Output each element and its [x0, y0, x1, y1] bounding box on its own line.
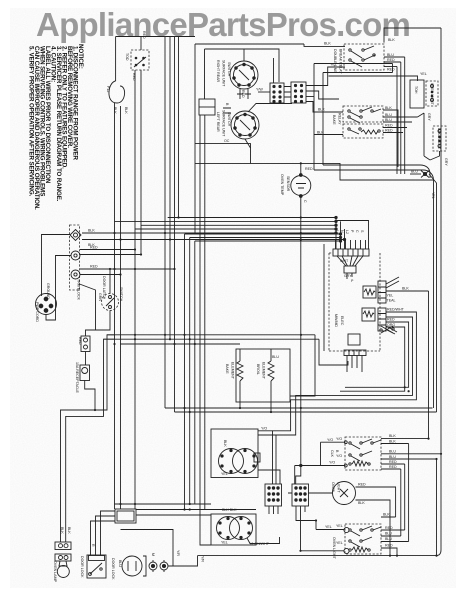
wire plug to L1	[42, 235, 71, 297]
wire CN8 to oven light top	[288, 492, 333, 494]
svg-text:TEAL: TEAL	[387, 299, 396, 303]
svg-text:TRM BLOCK: TRM BLOCK	[77, 279, 81, 301]
svg-text:M: M	[151, 553, 155, 556]
svg-text:15A RECEPTACLE: 15A RECEPTACLE	[75, 362, 79, 393]
switch cluster SC4 dashed	[345, 524, 381, 554]
relay K1	[363, 286, 376, 298]
SC1 wire RED2	[384, 66, 397, 68]
SC3 contacts	[349, 439, 381, 461]
svg-text:Y/O: Y/O	[329, 461, 335, 465]
wire circle1 top	[243, 49, 245, 61]
broil element EL2	[268, 349, 274, 402]
wire bottom corner	[440, 555, 442, 557]
wire riser 404	[404, 464, 406, 530]
bake element box	[236, 349, 290, 402]
SC1 riser 3	[396, 67, 398, 175]
wire GRY vert top	[436, 28, 441, 556]
svg-text:RED: RED	[142, 31, 146, 39]
wire receptacle down-right	[85, 381, 95, 411]
center bundle top corner 2	[190, 237, 341, 239]
SC2 lower row dashed	[343, 124, 383, 138]
svg-text:BLK: BLK	[67, 527, 71, 534]
wire TOD down 2	[140, 70, 142, 255]
svg-text:RED: RED	[387, 68, 395, 72]
svg-text:BLK: BLK	[388, 38, 395, 42]
svg-text:SWITCH: SWITCH	[227, 62, 231, 77]
surface switch box B2	[211, 514, 256, 545]
relay module box K4	[115, 509, 136, 523]
SC1 riser 1	[404, 57, 406, 174]
junction dots terminal rows	[109, 232, 142, 276]
bake element EL1	[237, 349, 243, 402]
pin labels	[335, 230, 364, 234]
wires CN8 down	[296, 506, 316, 551]
svg-text:RELAY: RELAY	[338, 113, 342, 125]
oven light OL1	[333, 482, 356, 505]
board connector strip CN5	[378, 281, 386, 303]
board inner edge	[323, 244, 325, 351]
junction dots low bus	[183, 407, 302, 413]
svg-text:BLU: BLU	[387, 53, 394, 57]
svg-text:RED: RED	[389, 460, 397, 464]
svg-text:R: R	[91, 544, 95, 547]
wire BLK terminal run right	[165, 233, 345, 240]
svg-text:YEL: YEL	[387, 294, 394, 298]
svg-text:RED: RED	[358, 483, 366, 487]
wire bus H1	[107, 334, 315, 336]
wire to 15A receptacle	[85, 352, 87, 366]
wire right vert 3	[433, 180, 435, 408]
wire drop to thermal loop	[115, 37, 117, 82]
svg-text:BLU: BLU	[385, 118, 392, 122]
center bundle wire 4	[200, 115, 211, 545]
wire 428 riser	[428, 291, 430, 439]
wire bus bottom cross 1	[115, 503, 212, 505]
wire BLK SC2 lower left	[314, 134, 343, 136]
svg-text:SENSOR: SENSOR	[286, 176, 290, 192]
wire left main bus 2	[120, 106, 122, 509]
clock labels	[330, 450, 339, 458]
wire riser 408	[408, 444, 410, 542]
SC3 element	[349, 461, 370, 466]
relay K2	[362, 308, 375, 321]
svg-text:YEL: YEL	[336, 524, 343, 528]
wire bus A	[61, 335, 116, 542]
wire LR bottom diagonal	[245, 139, 251, 148]
wire H2 drop	[319, 339, 348, 365]
svg-text:RED: RED	[385, 544, 393, 548]
wire BLK lower	[82, 239, 170, 241]
wire CN4 YEL out	[306, 67, 345, 86]
svg-text:MW/MD: MW/MD	[334, 314, 338, 327]
svg-text:Y/W: Y/W	[256, 88, 263, 92]
junction dots buses	[113, 334, 302, 345]
oven temp sensor RTD	[291, 174, 311, 198]
notice text block	[28, 44, 85, 210]
wire GRN ground	[80, 284, 96, 330]
element feed wire 1	[168, 217, 336, 219]
svg-text:RED: RED	[387, 58, 395, 62]
wire B1 lower to CN7	[258, 470, 280, 484]
svg-text:TOH: TOH	[414, 86, 418, 94]
svg-text:5. VERIFY PROPER OPERATION AFT: 5. VERIFY PROPER OPERATION AFTER SERVICI…	[28, 46, 35, 197]
wire sensor top	[251, 163, 301, 175]
svg-text:L2: L2	[345, 230, 349, 234]
svg-text:ELEMENT: ELEMENT	[231, 362, 235, 380]
mid riser 4	[178, 37, 180, 218]
svg-text:GRY: GRY	[444, 158, 448, 166]
header pins up	[336, 240, 366, 249]
wire CN4 row3 out	[306, 96, 314, 98]
wire sw contacts below	[237, 89, 251, 99]
wire riser 400	[400, 469, 402, 536]
svg-text:ORG: ORG	[387, 323, 395, 327]
board fan labels	[340, 259, 354, 283]
wire latch up-left	[86, 269, 111, 336]
relay box bottom wires	[323, 165, 430, 178]
svg-text:RED: RED	[132, 73, 136, 81]
thermal cutout loop TCO	[109, 81, 125, 103]
svg-text:Y/O: Y/O	[336, 454, 342, 458]
SC2 wires out right	[383, 110, 418, 167]
svg-text:CLK: CLK	[330, 450, 334, 458]
wire bus B	[66, 339, 115, 542]
switch cluster SC1 dashed	[344, 44, 384, 70]
junction dots mid risers	[164, 216, 180, 345]
header feed loop	[336, 221, 369, 250]
element feed wire 3	[141, 224, 336, 226]
svg-text:BLK: BLK	[402, 287, 409, 291]
svg-text:BLK: BLK	[124, 107, 128, 114]
wire CN4 row4 out	[306, 102, 343, 113]
svg-text:PWR CORD: PWR CORD	[35, 302, 39, 322]
wire sensor top right	[301, 163, 434, 180]
wire long bottom	[198, 555, 437, 557]
wire RED N right	[80, 249, 135, 251]
wire CN4 row2 out	[306, 91, 339, 99]
relay box frame inner	[323, 64, 393, 166]
wires CN3-CN4	[284, 87, 291, 98]
door lock motor switch S9	[87, 555, 106, 578]
connector block CN7	[265, 484, 282, 506]
svg-text:BLK: BLK	[318, 108, 325, 112]
svg-text:P12: P12	[106, 86, 110, 92]
wire YEL to T1	[316, 529, 344, 531]
15A receptacle box	[80, 365, 90, 381]
svg-text:BAKE: BAKE	[225, 364, 229, 374]
svg-text:Y/R: Y/R	[201, 556, 205, 562]
junction dot sensor	[300, 162, 302, 164]
svg-text:RED: RED	[387, 318, 395, 322]
surface unit switch SW-LR	[231, 111, 259, 139]
svg-text:BLU: BLU	[389, 455, 396, 459]
wire YEL top	[329, 76, 418, 81]
wire receptacle W1 box	[81, 336, 90, 352]
wire lock sw riser 2	[96, 516, 116, 555]
svg-text:YEL: YEL	[431, 192, 435, 199]
svg-text:DOUBLE LINE: DOUBLE LINE	[333, 49, 337, 73]
svg-text:GRY: GRY	[344, 274, 352, 278]
svg-text:DOOR LOCK: DOOR LOCK	[111, 558, 115, 580]
svg-text:LIGHT: LIGHT	[337, 482, 341, 493]
SC4 element	[349, 547, 370, 552]
svg-text:BLU: BLU	[385, 537, 392, 541]
svg-text:RED: RED	[241, 90, 245, 98]
svg-text:BLK: BLK	[223, 440, 227, 447]
connector block CN8	[292, 484, 309, 506]
wire RED L2 lower	[80, 274, 121, 276]
svg-text:SURFACE UNIT: SURFACE UNIT	[222, 110, 226, 137]
wire T2 left	[301, 550, 344, 552]
wire board out ORG	[345, 322, 409, 387]
wire board out RED/WHT	[273, 312, 417, 431]
switch RF circles	[217, 517, 253, 540]
convection fan motor M1	[122, 556, 146, 576]
wire GRY to bake light	[424, 151, 440, 160]
svg-text:BLK: BLK	[358, 501, 365, 505]
svg-text:BLU: BLU	[389, 450, 396, 454]
svg-text:BLK: BLK	[113, 107, 117, 114]
SC4 wires out	[381, 517, 409, 556]
wire GRY riser	[418, 113, 425, 156]
svg-text:Y/O: Y/O	[327, 438, 333, 442]
svg-text:BLK BLK: BLK BLK	[222, 508, 237, 512]
svg-text:YEL: YEL	[221, 472, 228, 476]
wire OL1 RED right	[356, 487, 396, 517]
board header CN1	[333, 249, 369, 256]
SC4 contacts	[349, 526, 381, 547]
junction crossing dot	[94, 409, 96, 411]
svg-text:BLU: BLU	[411, 170, 418, 174]
wire TOD down pair	[134, 70, 136, 509]
SC1 wires out BLK	[384, 28, 441, 43]
svg-text:ELEC: ELEC	[340, 316, 344, 326]
wire bus H3	[120, 343, 240, 345]
terminal L2 circle	[71, 270, 80, 279]
control board dashed box	[329, 253, 380, 351]
TOD switch dashed box	[131, 50, 149, 70]
svg-text:BLK: BLK	[389, 440, 396, 444]
switch cluster SC2 dashed	[343, 106, 383, 122]
top-center outer box	[195, 44, 304, 234]
wire OL1 BLK right	[356, 500, 391, 556]
wire BLK pair into LR	[223, 108, 231, 113]
svg-text:BLU: BLU	[118, 560, 122, 567]
oven light terminal T2	[344, 548, 349, 553]
wire conv branch	[121, 530, 174, 567]
top frame wire	[116, 36, 195, 38]
svg-text:SURFACE UNIT: SURFACE UNIT	[222, 60, 226, 87]
mid riser BLK 2	[169, 37, 171, 340]
wire board out RED	[276, 317, 413, 435]
svg-text:RED: RED	[78, 337, 82, 345]
header pins down	[347, 356, 362, 373]
SC4 labels	[383, 513, 393, 548]
svg-text:DOOR LATCH: DOOR LATCH	[102, 276, 106, 300]
svg-text:RED: RED	[90, 265, 98, 269]
svg-text:OVEN: OVEN	[331, 482, 335, 493]
wire K4 out 2	[136, 514, 211, 516]
svg-text:BLU: BLU	[272, 355, 279, 359]
wire sensor down	[296, 197, 301, 485]
wire plug to N	[46, 256, 71, 321]
svg-text:WHT: WHT	[340, 259, 349, 263]
svg-text:Y/O: Y/O	[261, 427, 267, 431]
connector block CN4	[291, 82, 306, 103]
wire BLK L1 right	[82, 232, 165, 234]
svg-text:AppliancePartsPros.com: AppliancePartsPros.com	[36, 6, 410, 43]
SC1 contacts	[349, 46, 375, 67]
relay diag K3	[380, 326, 394, 333]
SC2 contacts	[348, 107, 381, 123]
wire board out 4	[340, 327, 405, 391]
svg-text:BLK: BLK	[389, 434, 396, 438]
svg-text:Y/LGN/WHT: Y/LGN/WHT	[249, 542, 270, 546]
wire BLK board	[386, 290, 429, 292]
svg-text:GROUND: GROUND	[46, 283, 50, 299]
wire right vert 2	[436, 183, 438, 412]
svg-text:BAKE LIGHT: BAKE LIGHT	[437, 128, 441, 150]
wire B1 to CN7 row1	[258, 431, 273, 484]
connector block CN3	[270, 83, 284, 103]
door latch switch S8	[102, 294, 119, 311]
junction dots K4	[183, 508, 190, 510]
board small part	[337, 256, 363, 279]
svg-text:C: C	[303, 200, 307, 203]
svg-text:Y/R: Y/R	[176, 550, 180, 556]
TOH box	[410, 80, 424, 108]
indicator light L2	[160, 560, 168, 572]
board connector strip CN6	[378, 308, 386, 331]
wire B2 bottom right	[247, 537, 280, 544]
svg-text:BLU: BLU	[385, 113, 392, 117]
indicator light L1	[149, 560, 157, 572]
svg-text:YEL: YEL	[420, 72, 427, 76]
wires CN7 down	[269, 506, 278, 514]
SC1 riser 2	[400, 62, 402, 174]
wire RED N lower	[80, 254, 141, 256]
center bundle wire 1	[184, 234, 186, 509]
svg-text:RED: RED	[385, 124, 393, 128]
wire RED L2 right	[80, 268, 175, 270]
SC1 wire BLU	[384, 56, 405, 58]
labels column SC2	[385, 106, 393, 133]
terminal L1 diamond	[70, 230, 81, 241]
svg-text:RED: RED	[385, 526, 393, 530]
svg-text:BAKE: BAKE	[332, 115, 336, 125]
arrow connectors right	[335, 216, 346, 249]
svg-text:YEL: YEL	[221, 541, 228, 545]
wire G4 bottom to circle2	[248, 104, 292, 113]
wire BLK to SC1	[304, 44, 345, 46]
svg-text:BLK: BLK	[317, 131, 324, 135]
wire TOD up	[140, 37, 142, 51]
wire lock sw riser 1	[91, 521, 116, 555]
wire sw to CN3	[258, 91, 270, 93]
switch cluster SC3 dashed	[345, 437, 381, 470]
center bundle wire 3	[194, 241, 196, 504]
svg-text:RED: RED	[389, 465, 397, 469]
box OC	[195, 144, 251, 164]
svg-text:OVEN TEMP: OVEN TEMP	[280, 174, 284, 196]
svg-text:OVEN LIGHT: OVEN LIGHT	[430, 83, 434, 106]
SC2 lower contacts with element	[348, 128, 380, 134]
svg-text:Y/O: Y/O	[336, 437, 342, 441]
element stubs	[240, 402, 271, 412]
relay box bottom wire 2	[314, 170, 434, 180]
junction dots SC3	[427, 438, 442, 461]
oven lamp E1	[57, 561, 69, 578]
oven light terminal T1	[344, 527, 349, 532]
svg-text:OC: OC	[224, 139, 230, 143]
svg-text:BLK: BLK	[88, 229, 95, 233]
terminal block TRM BLOCK dashed outline	[70, 225, 80, 290]
wire indicators right	[168, 556, 198, 566]
oven light switch dashed	[426, 81, 438, 106]
wire lock sw riser 3	[101, 511, 116, 555]
wire B1 to CN7 row2	[258, 435, 276, 484]
element feed wire 4	[135, 228, 336, 230]
svg-text:BLU: BLU	[385, 532, 392, 536]
E notch	[199, 99, 215, 115]
svg-text:RED: RED	[385, 129, 393, 133]
junction dot bottom-right	[435, 555, 437, 557]
inner box surface switch RR	[205, 49, 280, 99]
center bundle wire 5	[204, 115, 206, 510]
svg-text:BREAK RELAY: BREAK RELAY	[339, 49, 343, 74]
wire YEL riser to SC4	[315, 521, 317, 530]
junction dots board wires	[404, 386, 410, 392]
svg-text:ELEMENT: ELEMENT	[262, 362, 266, 380]
svg-text:SWITCH: SWITCH	[227, 112, 231, 127]
svg-text:L1: L1	[335, 230, 339, 234]
junction dot SC4	[396, 555, 398, 557]
svg-text:BLK: BLK	[60, 527, 64, 534]
svg-text:BROIL: BROIL	[256, 364, 260, 375]
svg-text:GRY: GRY	[427, 113, 431, 121]
switch LF circles	[219, 449, 258, 474]
mid riser BLK 1	[164, 37, 166, 409]
center bundle wire 2	[189, 238, 191, 505]
wire CN8 drop to T2	[299, 550, 301, 552]
wire low bus 2	[175, 411, 437, 413]
svg-text:C: C	[355, 230, 359, 233]
board bottom cluster box	[348, 334, 360, 345]
wires circle1 to CN3 top	[273, 58, 275, 83]
svg-text:RIGHT REAR: RIGHT REAR	[216, 60, 220, 83]
oven light assembly box	[295, 441, 347, 484]
svg-text:N: N	[340, 230, 344, 233]
svg-text:RED: RED	[305, 167, 313, 171]
center bundle top corner 1	[185, 233, 341, 235]
wire K4 out 1	[136, 509, 256, 511]
fuse block F1	[55, 542, 71, 550]
wire bus H2	[104, 338, 320, 340]
junction dots sensor crossings	[300, 216, 302, 240]
junction dots bottom	[119, 503, 190, 505]
SC1 wire RED	[384, 61, 401, 63]
svg-text:BLK: BLK	[385, 106, 392, 110]
svg-text:RED: RED	[90, 246, 98, 250]
mid riser RED 3	[174, 37, 176, 413]
svg-text:TOD: TOD	[125, 53, 129, 61]
fuse block F2	[55, 554, 71, 561]
svg-text:DOOR LOCK: DOOR LOCK	[80, 556, 84, 578]
fanout wires CN5	[386, 277, 399, 288]
board bottom header	[344, 350, 366, 356]
svg-text:SWITCH: SWITCH	[119, 287, 123, 302]
svg-text:RED/WHT: RED/WHT	[387, 308, 405, 312]
